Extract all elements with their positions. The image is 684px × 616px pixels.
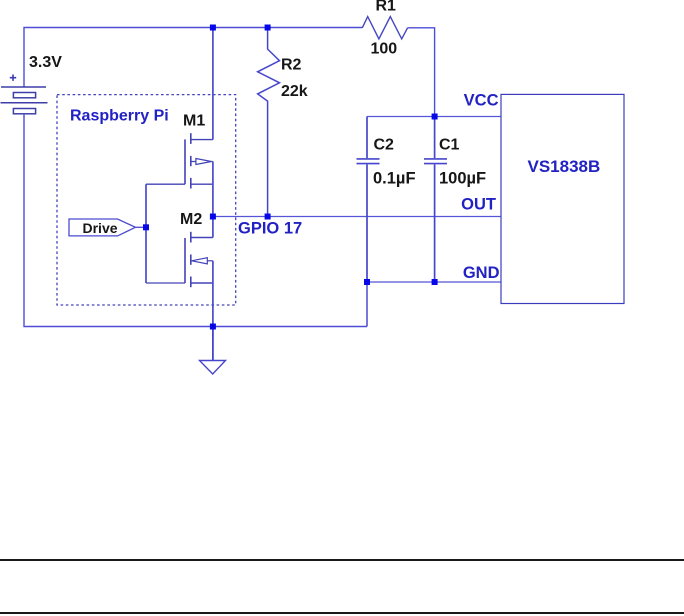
M1 body stub [190,156,192,166]
M1 gate bar [184,139,186,184]
node ground rail / ground symbol [210,324,216,330]
IC U1 VS1838B box [501,94,624,303]
ground symbol [200,327,226,375]
capacitor C1 [424,117,447,283]
M2 body arrow (points left) [192,258,208,264]
node GND / C2 [364,279,370,285]
svg-text:R1: R1 [376,0,397,15]
C1 bottom lead [434,164,436,282]
svg-text:C2: C2 [374,137,395,154]
svg-text:VCC: VCC [464,92,499,110]
C2 top lead [366,117,368,159]
node GND / C1 [432,279,438,285]
node Drive / gate bus [143,224,149,230]
wire C2 bottom to ground rail [366,282,368,327]
M2 drain stub [190,232,192,243]
M2 drain lead [191,237,213,239]
C1 bottom plate [424,163,447,165]
svg-text:M1: M1 [183,113,205,130]
wire GPIO17 / OUT net [213,216,501,218]
wire GND net [367,281,501,283]
svg-text:VS1838B: VS1838B [528,157,601,176]
svg-text:100: 100 [371,41,398,58]
M1 drain lead [191,139,213,141]
C1 top plate [424,158,447,160]
C2 bottom plate [357,163,380,165]
node GPIO junction [210,214,216,220]
wire M2 body to source and down to ground rail [212,261,214,327]
node R2 / OUT net [265,214,271,220]
M2 source lead [191,282,213,284]
node top rail / M1 feed [210,25,216,31]
transistor M2 (NMOS) [185,232,213,287]
battery B1 plate top [1,86,46,88]
C1 top lead [434,117,436,159]
M1 source stub [190,178,192,189]
svg-text:Raspberry Pi: Raspberry Pi [70,108,169,125]
battery B1 cell rect 1 [13,93,35,98]
svg-text:GPIO 17: GPIO 17 [238,220,302,238]
svg-text:R2: R2 [281,57,302,74]
M1 body arrow (points right) [196,159,212,165]
ground triangle [200,361,226,375]
M1 body lead [191,161,213,163]
wire top rail from battery to R1 [24,28,362,88]
ground stem [212,327,214,361]
horizontal rule upper [0,559,684,561]
M1 drain stub [190,133,192,144]
svg-text:22k: 22k [281,83,308,100]
svg-text:100µF: 100µF [439,170,486,188]
M2 gate bar [184,238,186,283]
resistor R2 [258,28,280,217]
horizontal rule lower [0,612,684,614]
Drive input flag [69,219,135,236]
M1 source lead [191,183,213,185]
wire M2 gate link [146,282,185,284]
battery B1 plate middle [1,102,48,104]
battery plus sign [10,75,16,81]
capacitor C2 [357,117,380,283]
transistor M1 (PMOS) [185,133,213,188]
wire Drive tip to gate bus [135,226,146,228]
svg-text:0.1µF: 0.1µF [373,170,416,188]
Raspberry Pi dashed box [57,95,236,305]
node top rail / R2 [265,25,271,31]
svg-text:GND: GND [463,264,500,282]
C2 bottom lead [366,164,368,282]
svg-text:C1: C1 [439,137,460,154]
svg-text:OUT: OUT [461,196,496,214]
wire M1 gate link [146,183,185,185]
wire battery bottom to ground rail [24,114,367,327]
battery B1 cell rect 2 [13,109,35,114]
resistor R1 [362,17,407,39]
wire R1 right to VCC vertical [408,28,435,117]
wire VCC net [367,116,501,118]
M2 source stub [190,277,192,288]
wire drain feed vertical from top rail to M1 [212,28,214,140]
svg-text:M2: M2 [180,211,202,228]
M2 body stub [190,255,192,265]
wire M1 body/source down through GPIO node to M2 drain [212,162,214,238]
wire gate bus vertical [145,184,147,283]
svg-text:Drive: Drive [83,220,118,236]
svg-text:3.3V: 3.3V [29,54,62,71]
C2 top plate [357,158,380,160]
node VCC / C1 [432,114,438,120]
M2 body lead [207,260,213,262]
